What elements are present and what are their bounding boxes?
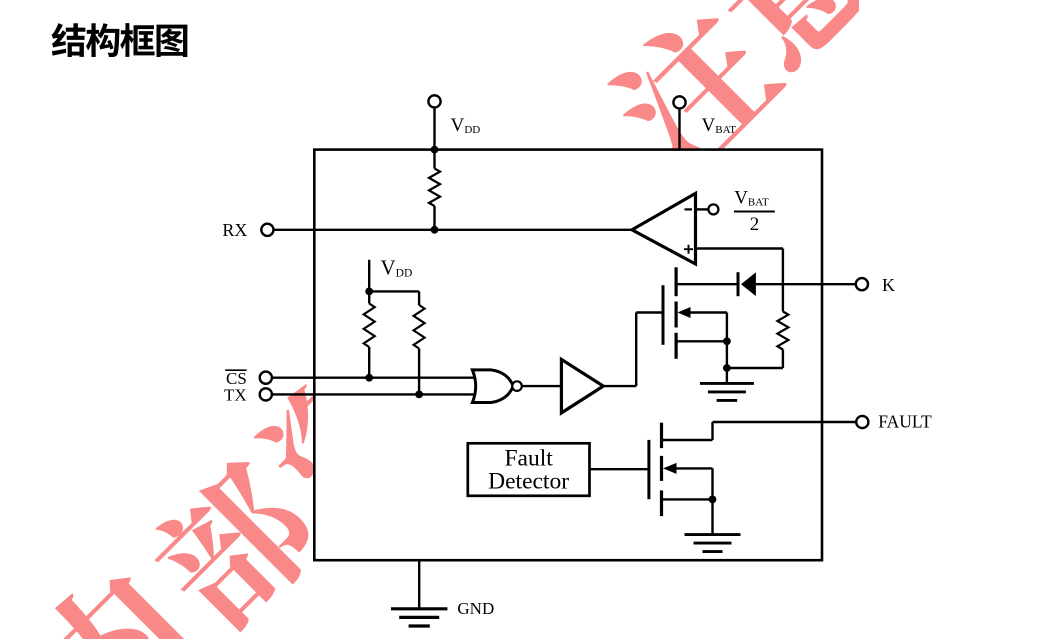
reference terminal VBAT/2 — [708, 204, 718, 214]
buffer U3 — [561, 359, 603, 413]
resistor R4 — [777, 312, 788, 350]
node R1/RX junction — [431, 226, 439, 234]
wire diode to K terminal — [756, 283, 856, 285]
U1 minus sign — [685, 208, 693, 210]
VDD terminal — [433, 108, 435, 150]
node ground junction — [723, 364, 731, 372]
U2 output bubble — [512, 381, 522, 391]
svg-text:FAULT: FAULT — [878, 411, 932, 431]
ground G2 — [711, 499, 713, 534]
CS terminal — [260, 372, 272, 384]
NOR gate U2 — [472, 370, 513, 403]
resistor R1 — [433, 150, 435, 169]
wire U1 plus input — [696, 247, 783, 249]
node VDD junction — [431, 146, 439, 154]
wire Q2 drain to FAULT — [662, 439, 713, 441]
svg-text:Detector: Detector — [488, 469, 569, 495]
svg-text:RX: RX — [222, 220, 247, 240]
node TX/R3 junction — [415, 391, 423, 399]
Q2 body arrow — [663, 463, 677, 474]
Fault Detector block U4 — [468, 443, 590, 496]
IC outline box — [314, 150, 822, 561]
resistor R2 — [368, 291, 370, 303]
FAULT terminal — [856, 416, 868, 428]
VDD2 stub — [368, 260, 370, 292]
RX terminal — [261, 224, 273, 236]
svg-text:TX: TX — [224, 386, 247, 405]
diode D1 — [737, 272, 740, 296]
Q1 body arrow — [678, 307, 691, 318]
VBAT terminal — [678, 109, 680, 150]
resistor R3 — [414, 305, 425, 349]
wire CS line — [272, 377, 476, 379]
wire Q1 drain to diode — [676, 283, 738, 285]
TX terminal — [260, 388, 272, 400]
op-amp U1 comparator — [632, 193, 696, 264]
svg-text:2: 2 — [750, 214, 760, 235]
wire source to ground junction — [726, 341, 728, 368]
wire U2 to U3 — [522, 385, 562, 387]
title 结构框图 — [52, 23, 86, 57]
transistor Q2 — [647, 440, 650, 499]
svg-text:Fault: Fault — [504, 445, 553, 471]
U1 plus sign — [684, 248, 693, 250]
wire Q1 body to source node — [690, 311, 727, 313]
wire TX line — [272, 393, 474, 395]
wire Q2 body — [676, 467, 713, 469]
ground GND — [391, 607, 447, 610]
wire R4 to ground node — [727, 367, 783, 369]
node Q2 source junction — [709, 496, 717, 504]
transistor Q1 — [662, 285, 665, 345]
wire Q2 source — [662, 498, 713, 500]
node Q1 source junction — [723, 337, 731, 345]
node CS/R2 junction — [365, 374, 373, 382]
wire RX line — [274, 229, 633, 231]
wire VDD2 to R3 — [369, 290, 419, 292]
wire U3 output to Q1 gate — [603, 385, 636, 387]
wire GND stub — [418, 560, 420, 609]
ground G1 — [726, 368, 728, 383]
svg-text:GND: GND — [457, 599, 494, 618]
svg-text:K: K — [882, 275, 895, 295]
wire Q1 source — [676, 340, 727, 342]
node VDD2 junction — [365, 288, 373, 296]
K terminal — [856, 278, 868, 290]
wire U4 to Q2 gate — [590, 468, 649, 470]
wire U1 minus to reference terminal — [696, 208, 709, 210]
